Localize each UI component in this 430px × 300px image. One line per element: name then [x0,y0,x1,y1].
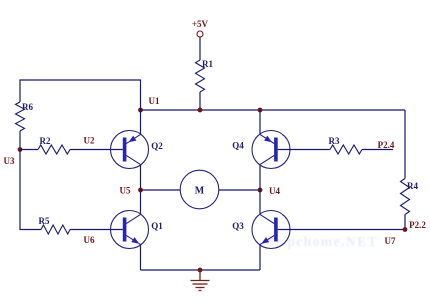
wire: R1 to top rail [199,92,201,110]
transistor Q2 (PNP) [111,131,164,169]
wire: Q4 base out to R3 [278,149,330,151]
node P2.2 [403,220,427,232]
svg-text:R3: R3 [329,136,340,146]
wire: +5V terminal to R1 [199,37,201,60]
svg-text:R5: R5 [39,216,50,226]
svg-text:U1: U1 [149,96,160,106]
resistor R5 [39,216,71,234]
svg-text:R2: R2 [40,136,51,146]
svg-text:R4: R4 [407,181,418,191]
svg-text:+5V: +5V [192,19,209,29]
svg-text:R1: R1 [202,59,213,69]
transistor Q4 (PNP) [232,131,290,169]
wire: node U3 down the left side [20,150,41,230]
svg-text:U2: U2 [84,136,95,146]
wire: U5 to motor [141,189,181,191]
motor M [180,170,219,209]
wire: Q3 base out to node P2.2 [278,229,405,231]
wire: Q1 emitter down [140,245,142,270]
wire: Q4 emitter up to rail [259,110,261,134]
svg-text:Q4: Q4 [232,141,244,151]
svg-text:P2.4: P2.4 [378,140,395,150]
svg-text:P2.2: P2.2 [409,220,426,230]
junction: rail right [258,108,263,113]
wire: bottom rail [141,269,261,271]
resistor R4 [401,179,419,215]
wire: Q4 collector / Q3 collector vertical [259,165,261,215]
wire: R3 to port P2.4 [362,140,395,150]
junction: rail left (U1 net) [138,108,143,113]
svg-text:M: M [195,186,205,197]
wire: U3 to R2 [20,149,38,151]
svg-text:Q3: Q3 [232,221,244,231]
wire: Q2 emitter up to rail [140,110,142,134]
resistor R2 [38,136,70,154]
watermark [266,235,378,250]
node U5 [120,186,143,196]
resistor R3 [329,136,363,154]
wire: R2 to Q2 base, net U2 [70,136,123,150]
wire: right vertical from rail to R4 [404,110,406,179]
wire: motor to node U4 [219,189,260,191]
wire: upper-left branch [20,80,141,110]
junction: ground node [198,268,203,273]
junction: rail centre at R1 [198,108,203,113]
wire: Q3 emitter down [259,245,261,270]
wire: top rail U1 [141,109,406,111]
power terminal +5V [192,19,209,37]
svg-text:Q1: Q1 [151,221,163,231]
resistor R6 [16,102,34,131]
ground [191,270,210,291]
svg-text:U6: U6 [84,235,95,245]
wire: R4 to node P2.2 [404,215,406,230]
wire: Q2 collector / Q1 collector vertical [140,165,142,215]
svg-text:R6: R6 [22,102,33,112]
node U4 [258,186,281,196]
wire: R6 to node U3 [19,131,21,150]
svg-text:dz.pchome.NET: dz.pchome.NET [266,235,378,250]
resistor R1 [196,59,214,92]
transistor Q1 (NPN) [111,211,164,249]
svg-text:Q2: Q2 [151,141,163,151]
svg-text:U5: U5 [120,186,131,196]
svg-text:U7: U7 [385,236,396,246]
node U3 [4,147,23,166]
wire: left lower lead into Q1 base [70,229,123,231]
svg-text:U4: U4 [269,186,280,196]
svg-text:U3: U3 [4,156,15,166]
transistor Q3 (NPN) [232,211,290,249]
